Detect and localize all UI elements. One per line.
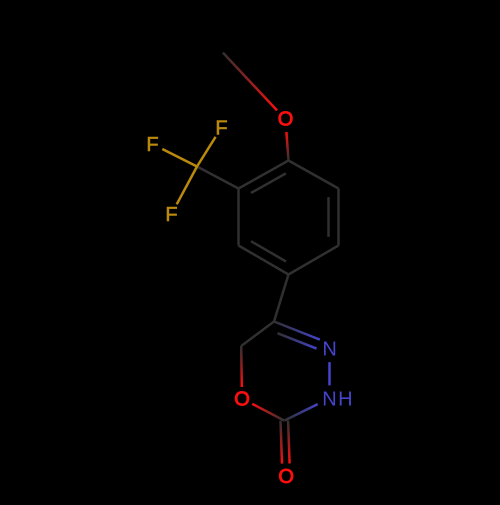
bond C-F3 xyxy=(177,167,197,205)
bond C-F1 xyxy=(197,137,216,167)
svg-text:N: N xyxy=(322,339,336,361)
benzene bond C4-C5a xyxy=(289,246,339,275)
svg-text:O: O xyxy=(234,389,250,411)
bond N4-N3 xyxy=(328,362,331,385)
bond C5=N4 (double) xyxy=(274,322,320,349)
bond N3-C2(ring) xyxy=(284,404,317,421)
bond O(methoxy)-C1(aryl) xyxy=(286,132,288,161)
bond C6-C5 (ring) xyxy=(241,322,274,347)
bond C2(ring)-O1 xyxy=(252,404,284,421)
benzene bond C6a-C1 xyxy=(289,161,339,189)
benzene bond C3-C4 (double) xyxy=(239,241,289,274)
svg-text:F: F xyxy=(146,134,158,156)
benzene bond C5a-C6a (double) xyxy=(329,189,339,246)
svg-text:NH: NH xyxy=(322,389,354,411)
bond O(methoxy)-CH3 xyxy=(223,53,277,111)
svg-text:O: O xyxy=(278,466,294,488)
benzene bond C2-C3 xyxy=(237,189,240,246)
bond C2(aryl)-C(F3) xyxy=(197,167,239,189)
svg-text:F: F xyxy=(215,118,227,140)
svg-text:F: F xyxy=(165,204,177,226)
benzene bond C1-C2 (double) xyxy=(239,161,289,194)
bond O1-C6(ring) xyxy=(240,346,243,387)
svg-text:O: O xyxy=(278,109,294,131)
bond C2=O carbonyl (double) xyxy=(281,421,290,464)
bond C-F2 xyxy=(162,149,197,167)
bond C4(aryl)-C5(oxadiazinone) xyxy=(274,275,289,322)
